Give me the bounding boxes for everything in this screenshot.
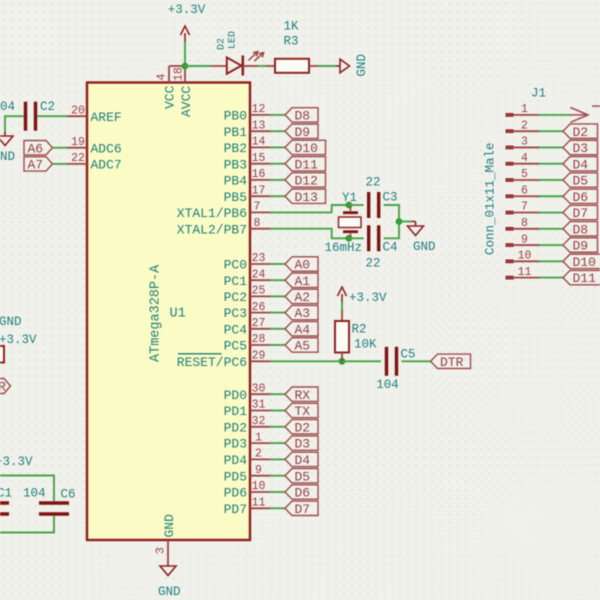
wire — [270, 179, 285, 181]
svg-text:20: 20 — [71, 104, 85, 117]
label A1 — [285, 273, 318, 287]
crystal Y1 — [350, 205, 352, 211]
wire — [270, 279, 285, 281]
svg-text:D11: D11 — [295, 157, 319, 172]
svg-text:D9: D9 — [295, 125, 311, 140]
svg-text:D2: D2 — [573, 125, 589, 140]
svg-text:22: 22 — [365, 176, 380, 190]
svg-text:LED: LED — [228, 31, 239, 49]
wire — [53, 163, 68, 165]
wire — [270, 393, 285, 395]
svg-text:D5: D5 — [573, 174, 589, 189]
svg-text:10: 10 — [252, 480, 266, 493]
svg-text:29: 29 — [252, 350, 266, 363]
svg-text:A3: A3 — [295, 306, 311, 321]
pin 12 PB0 — [250, 114, 270, 116]
capacitor C2 — [24, 102, 27, 131]
svg-text:24: 24 — [252, 268, 266, 281]
pin 7 XTAL1/PB6 — [250, 211, 270, 213]
label D7 — [285, 501, 318, 515]
svg-text:C5: C5 — [401, 348, 416, 362]
pin 4 VCC — [168, 66, 170, 83]
ground crystal — [412, 221, 416, 223]
J1 pin 6 — [506, 194, 514, 198]
wire — [270, 344, 285, 346]
svg-text:23: 23 — [252, 252, 266, 265]
svg-text:22: 22 — [365, 257, 380, 271]
J1 pin 1 — [506, 113, 514, 117]
wire RESET — [270, 360, 342, 362]
wire — [270, 114, 285, 116]
svg-text:D9: D9 — [573, 239, 589, 254]
J1 pin 5 — [506, 178, 514, 182]
svg-text:PD7: PD7 — [224, 502, 247, 517]
pin 24 PC1 — [250, 279, 270, 281]
pin 10 PD6 — [250, 491, 270, 493]
svg-text:104: 104 — [0, 100, 15, 114]
wire XTAL1 — [270, 205, 349, 212]
label D6 — [563, 189, 598, 203]
wire — [342, 360, 381, 362]
capacitor C3 — [367, 192, 370, 218]
svg-text:D11: D11 — [573, 271, 597, 286]
svg-text:ADC7: ADC7 — [91, 158, 122, 173]
svg-text:VCC: VCC — [162, 85, 177, 109]
label D2 — [285, 420, 318, 434]
wire — [341, 302, 343, 310]
svg-text:1K: 1K — [283, 20, 299, 34]
label D10 — [563, 254, 600, 268]
svg-text:10: 10 — [518, 250, 532, 263]
wire — [270, 263, 285, 265]
svg-text:8: 8 — [521, 217, 528, 230]
svg-text:RESET/PC6: RESET/PC6 — [177, 355, 247, 370]
pin 17 PB5 — [250, 195, 270, 197]
svg-text:3: 3 — [155, 547, 168, 554]
svg-text:16mHz: 16mHz — [325, 241, 363, 255]
wire — [258, 65, 266, 67]
wire — [270, 130, 285, 132]
svg-text:A7: A7 — [28, 158, 44, 173]
label D11 — [285, 157, 326, 171]
svg-text:D6: D6 — [573, 190, 589, 205]
pin 1 PD3 — [250, 442, 270, 444]
label D3 — [285, 436, 318, 450]
svg-text:D4: D4 — [573, 157, 589, 172]
svg-text:26: 26 — [252, 301, 266, 314]
svg-text:R2: R2 — [352, 323, 367, 337]
svg-text:1: 1 — [255, 431, 262, 444]
label D8 — [563, 222, 598, 236]
wire — [539, 212, 563, 214]
svg-text:D4: D4 — [295, 453, 311, 468]
svg-text:GND: GND — [0, 315, 22, 329]
svg-text:30: 30 — [252, 382, 266, 395]
svg-text:PD5: PD5 — [224, 469, 247, 484]
svg-text:2: 2 — [255, 448, 262, 461]
junction — [346, 202, 353, 209]
wire — [270, 146, 285, 148]
svg-text:7: 7 — [254, 201, 261, 214]
wire — [539, 114, 570, 116]
svg-text:5: 5 — [521, 168, 528, 181]
svg-text:D2: D2 — [217, 38, 228, 50]
pin 16 PB4 — [250, 179, 270, 181]
pin 32 PD2 — [250, 426, 270, 428]
label D12 — [285, 173, 326, 187]
svg-text:10K: 10K — [354, 338, 377, 352]
wire XTAL2 — [270, 229, 349, 239]
svg-text:PB5: PB5 — [224, 190, 247, 205]
pin 26 PC3 — [250, 312, 270, 314]
svg-text:A4: A4 — [295, 322, 311, 337]
svg-text:D2: D2 — [295, 420, 311, 435]
wire — [37, 115, 67, 117]
IC U1 ATmega328P-A body — [87, 83, 250, 541]
svg-text:AVCC: AVCC — [179, 86, 194, 117]
svg-text:PC3: PC3 — [224, 306, 247, 321]
svg-text:PB1: PB1 — [224, 125, 248, 140]
svg-text:+3.3V: +3.3V — [0, 333, 37, 347]
ground after R3 — [336, 65, 340, 67]
junction — [182, 63, 189, 70]
label A2 — [285, 289, 318, 303]
wire — [0, 516, 54, 533]
svg-text:D10: D10 — [295, 141, 318, 156]
wire — [349, 204, 364, 206]
pin 30 PD0 — [250, 393, 270, 395]
svg-text:4: 4 — [156, 74, 169, 81]
svg-text:GND: GND — [158, 585, 181, 599]
junction — [339, 358, 346, 365]
svg-text:J1: J1 — [531, 87, 546, 101]
resistor R2 — [341, 310, 343, 321]
wire — [270, 458, 285, 460]
wire — [270, 163, 285, 165]
svg-text:3: 3 — [521, 136, 528, 149]
wire — [270, 507, 285, 509]
svg-text:DTR: DTR — [0, 380, 6, 395]
svg-text:D12: D12 — [295, 174, 318, 189]
pin 31 PD1 — [250, 410, 270, 412]
svg-text:+3.3V: +3.3V — [0, 455, 33, 469]
junction — [346, 235, 353, 242]
label TX — [285, 403, 318, 417]
wire — [399, 221, 412, 223]
svg-text:A5: A5 — [295, 339, 311, 354]
pin 20 AREF — [67, 115, 87, 117]
pin 27 PC4 — [250, 328, 270, 330]
label D7 — [563, 205, 598, 219]
wire — [270, 328, 285, 330]
svg-text:28: 28 — [252, 333, 266, 346]
pin 22 ADC7 — [67, 163, 87, 165]
wire — [539, 277, 563, 279]
label D9 — [285, 124, 318, 138]
svg-text:9: 9 — [521, 233, 528, 246]
svg-text:GND: GND — [355, 54, 369, 77]
wire — [270, 295, 285, 297]
label D5 — [563, 173, 598, 187]
svg-text:PD3: PD3 — [224, 437, 247, 452]
svg-text:PB0: PB0 — [224, 109, 247, 124]
svg-text:D13: D13 — [295, 190, 318, 205]
svg-text:A0: A0 — [295, 258, 311, 273]
label D5 — [285, 469, 318, 483]
wire — [539, 260, 563, 262]
svg-text:11: 11 — [518, 266, 532, 279]
svg-text:A6: A6 — [28, 141, 44, 156]
capacitor C6 — [39, 501, 69, 504]
label D13 — [285, 189, 326, 203]
capacitor C1 partial — [0, 501, 9, 504]
svg-text:GND: GND — [0, 150, 15, 164]
svg-text:D6: D6 — [295, 486, 311, 501]
svg-text:PC5: PC5 — [224, 339, 247, 354]
resistor R3 — [266, 65, 275, 67]
svg-text:15: 15 — [252, 152, 266, 165]
resistor partial — [0, 346, 4, 363]
svg-text:9: 9 — [255, 464, 262, 477]
svg-text:4: 4 — [521, 152, 528, 165]
svg-text:D5: D5 — [295, 469, 311, 484]
wire — [53, 147, 68, 149]
svg-text:D8: D8 — [295, 109, 311, 124]
wire — [270, 491, 285, 493]
svg-text:PD4: PD4 — [224, 453, 248, 468]
capacitor C5 — [385, 347, 388, 376]
svg-text:17: 17 — [252, 184, 266, 197]
svg-text:12: 12 — [252, 103, 266, 116]
wire — [384, 205, 399, 222]
wire — [270, 475, 285, 477]
svg-text:22: 22 — [71, 152, 85, 165]
wire — [0, 476, 54, 502]
svg-text:32: 32 — [252, 415, 266, 428]
wire — [270, 195, 285, 197]
pin 28 PC5 — [250, 344, 270, 346]
pin 23 PC0 — [250, 263, 270, 265]
svg-text:18: 18 — [173, 67, 186, 81]
pin 18 AVCC — [184, 66, 186, 83]
svg-text:PD1: PD1 — [224, 404, 248, 419]
svg-text:ADC6: ADC6 — [91, 141, 122, 156]
svg-text:U1: U1 — [170, 307, 186, 322]
svg-text:C6: C6 — [61, 488, 76, 502]
svg-text:PC0: PC0 — [224, 258, 247, 273]
label A6 — [24, 141, 53, 155]
svg-text:C2: C2 — [40, 100, 55, 114]
svg-text:14: 14 — [252, 136, 266, 149]
label A5 — [285, 338, 318, 352]
svg-text:D7: D7 — [573, 206, 589, 221]
label A7 — [24, 157, 53, 171]
svg-text:11: 11 — [252, 497, 266, 510]
label D10 — [285, 140, 326, 154]
ground bottom — [160, 566, 176, 576]
svg-text:D3: D3 — [295, 437, 311, 452]
svg-text:ATmega328P-A: ATmega328P-A — [149, 264, 164, 362]
svg-text:DTR: DTR — [440, 355, 464, 370]
capacitor C4 — [367, 225, 370, 251]
svg-text:PD6: PD6 — [224, 486, 247, 501]
wire — [539, 195, 563, 197]
svg-text:31: 31 — [252, 399, 266, 412]
label A4 — [285, 322, 318, 336]
svg-text:PB2: PB2 — [224, 141, 247, 156]
label RX — [285, 387, 318, 401]
svg-text:PB3: PB3 — [224, 157, 247, 172]
label D6 — [285, 485, 318, 499]
svg-text:7: 7 — [521, 201, 528, 214]
label DTR — [431, 354, 471, 368]
pin 9 PD5 — [250, 475, 270, 477]
svg-text:PC2: PC2 — [224, 290, 247, 305]
label D9 — [563, 238, 598, 252]
svg-text:AREF: AREF — [91, 110, 122, 125]
pin 29 RESET/PC6 — [250, 360, 270, 362]
svg-text:C4: C4 — [383, 241, 398, 255]
pin 25 PC2 — [250, 295, 270, 297]
pin 19 ADC6 — [67, 147, 87, 149]
wire — [5, 116, 24, 132]
svg-text:+3.3V: +3.3V — [349, 291, 387, 305]
wire — [539, 179, 563, 181]
label D3 — [563, 140, 598, 154]
label A0 — [285, 257, 318, 271]
svg-text:104: 104 — [23, 487, 46, 501]
svg-text:D8: D8 — [573, 222, 589, 237]
svg-text:PD2: PD2 — [224, 420, 247, 435]
wire — [270, 312, 285, 314]
svg-text:XTAL2/PB7: XTAL2/PB7 — [177, 222, 247, 237]
svg-text:27: 27 — [252, 317, 266, 330]
svg-text:GND: GND — [162, 514, 177, 538]
svg-text:D10: D10 — [573, 255, 596, 270]
svg-text:XTAL1/PB6: XTAL1/PB6 — [177, 206, 247, 221]
svg-text:A2: A2 — [295, 290, 311, 305]
J1 pin 9 — [506, 243, 514, 247]
label D4 — [563, 157, 598, 171]
label DTR partial — [0, 379, 11, 394]
svg-text:D7: D7 — [295, 502, 311, 517]
label A3 — [285, 305, 318, 319]
pin 11 PD7 — [250, 507, 270, 509]
label D4 — [285, 452, 318, 466]
svg-text:RX: RX — [295, 388, 311, 403]
svg-text:25: 25 — [252, 285, 266, 298]
wire — [270, 426, 285, 428]
svg-text:1: 1 — [521, 103, 528, 116]
svg-text:A1: A1 — [295, 274, 311, 289]
pin 14 PB2 — [250, 146, 270, 148]
svg-text:104: 104 — [376, 378, 399, 392]
LED D2 — [211, 65, 227, 67]
J1 pin 10 — [506, 260, 514, 264]
svg-text:Conn_01x11_Male: Conn_01x11_Male — [484, 142, 498, 255]
label D2 — [563, 124, 598, 138]
svg-text:PC4: PC4 — [224, 322, 248, 337]
global label arrow (clipped) — [570, 114, 586, 116]
pin 13 PB1 — [250, 130, 270, 132]
J1 pin 11 — [506, 276, 514, 280]
wire — [539, 228, 563, 230]
svg-text:16: 16 — [252, 168, 266, 181]
J1 pin 8 — [506, 227, 514, 231]
svg-text:C3: C3 — [383, 191, 398, 205]
svg-text:+3.3V: +3.3V — [168, 3, 206, 17]
J1 pin 2 — [506, 129, 514, 133]
wire — [349, 237, 364, 239]
wire — [539, 130, 563, 132]
pin 15 PB3 — [250, 163, 270, 165]
svg-text:GND: GND — [413, 240, 436, 254]
svg-text:8: 8 — [254, 217, 261, 230]
svg-text:D3: D3 — [573, 141, 589, 156]
J1 pin 7 — [506, 211, 514, 215]
svg-text:13: 13 — [252, 119, 266, 132]
label D8 — [285, 108, 318, 122]
J1 pin 3 — [506, 146, 514, 150]
wire — [318, 65, 336, 67]
J1 pin 4 — [506, 162, 514, 166]
wire — [384, 222, 399, 239]
wire — [184, 42, 186, 66]
wire — [539, 163, 563, 165]
svg-text:C1: C1 — [0, 487, 12, 501]
wire — [539, 244, 563, 246]
svg-text:19: 19 — [71, 136, 85, 149]
pin 8 XTAL2/PB7 — [250, 228, 270, 230]
wire — [270, 410, 285, 412]
svg-text:PC1: PC1 — [224, 274, 248, 289]
svg-text:R3: R3 — [283, 35, 298, 49]
svg-text:PD0: PD0 — [224, 388, 247, 403]
pin 2 PD4 — [250, 458, 270, 460]
svg-text:Y1: Y1 — [342, 191, 357, 205]
svg-text:2: 2 — [521, 119, 528, 132]
wire — [270, 442, 285, 444]
wire — [185, 65, 211, 67]
label D11 — [563, 270, 600, 284]
ground left — [4, 132, 6, 136]
svg-text:6: 6 — [521, 184, 528, 197]
pin 3 GND — [167, 540, 169, 566]
svg-text:TX: TX — [295, 404, 311, 419]
wire — [402, 360, 431, 362]
junction — [396, 218, 403, 225]
wire — [539, 146, 563, 148]
svg-text:PB4: PB4 — [224, 174, 248, 189]
